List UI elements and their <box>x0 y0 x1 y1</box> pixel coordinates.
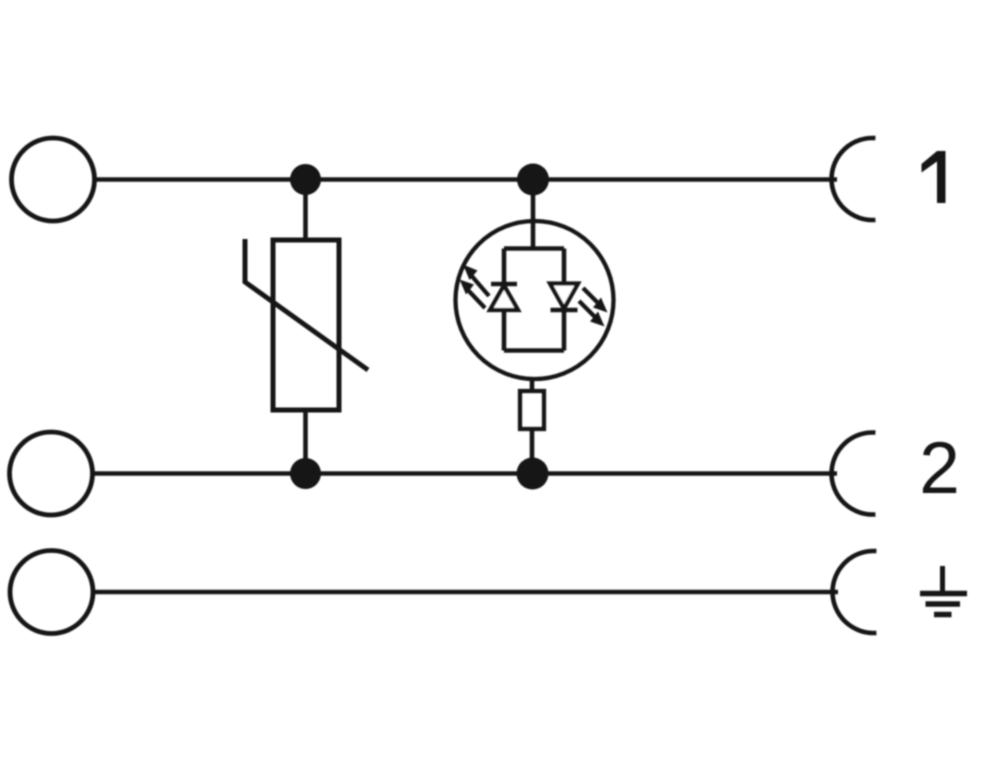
LED D2 triangle (pointing down) <box>550 284 578 309</box>
wire row 2 <box>93 471 838 476</box>
terminal circle T3 (left, row 3) <box>10 551 93 634</box>
ground symbol stem <box>940 566 945 591</box>
LED bridge left rail <box>502 249 507 351</box>
svg-text:2: 2 <box>919 428 960 509</box>
wire row 3 <box>93 590 838 595</box>
wire varistor bottom lead <box>303 410 308 474</box>
wire LED to resistor <box>530 379 535 391</box>
terminal circle T2 (left, row 2) <box>10 432 93 515</box>
label 1 <box>922 151 946 203</box>
LED D2 cathode bar (right, bottom) <box>551 308 578 313</box>
ground symbol bar 1 <box>920 591 967 597</box>
LED D1 triangle (pointing up) <box>490 286 518 311</box>
LED bridge right rail <box>562 249 567 351</box>
wire LED branch top lead <box>531 180 536 250</box>
LED D2 light arrow a <box>583 288 599 304</box>
node junction on wire 2 at varistor <box>290 458 321 489</box>
LED bridge box top <box>504 246 564 251</box>
LED bridge box bottom <box>504 348 564 353</box>
LED D1 light arrow a <box>470 274 489 296</box>
ground symbol bar 3 <box>934 612 952 618</box>
wire row 1 <box>95 177 838 182</box>
ground symbol bar 2 <box>926 601 961 607</box>
node junction on wire 2 at LED branch <box>517 458 549 490</box>
resistor R1 body <box>520 391 544 429</box>
terminal circle T1 (left, row 1) <box>12 138 95 221</box>
node junction on wire 1 at LED branch <box>517 164 549 196</box>
terminal arc socket 2 (right, row 2) <box>832 433 876 515</box>
varistor RU diagonal stroke <box>245 239 368 370</box>
node junction on wire 1 at varistor <box>290 164 321 195</box>
wire varistor top lead <box>303 180 308 241</box>
wire resistor bottom lead <box>530 429 535 474</box>
terminal arc socket 3 (right, row 3) <box>833 551 877 633</box>
varistor RU body <box>273 240 339 410</box>
LED D2 light arrow b <box>579 301 596 318</box>
LED D1 cathode bar (left, top) <box>491 282 517 287</box>
terminal arc socket 1 (right, row 1) <box>832 138 876 220</box>
LED indicator circle U1 <box>456 221 614 379</box>
LED D1 light arrow b <box>466 288 485 308</box>
